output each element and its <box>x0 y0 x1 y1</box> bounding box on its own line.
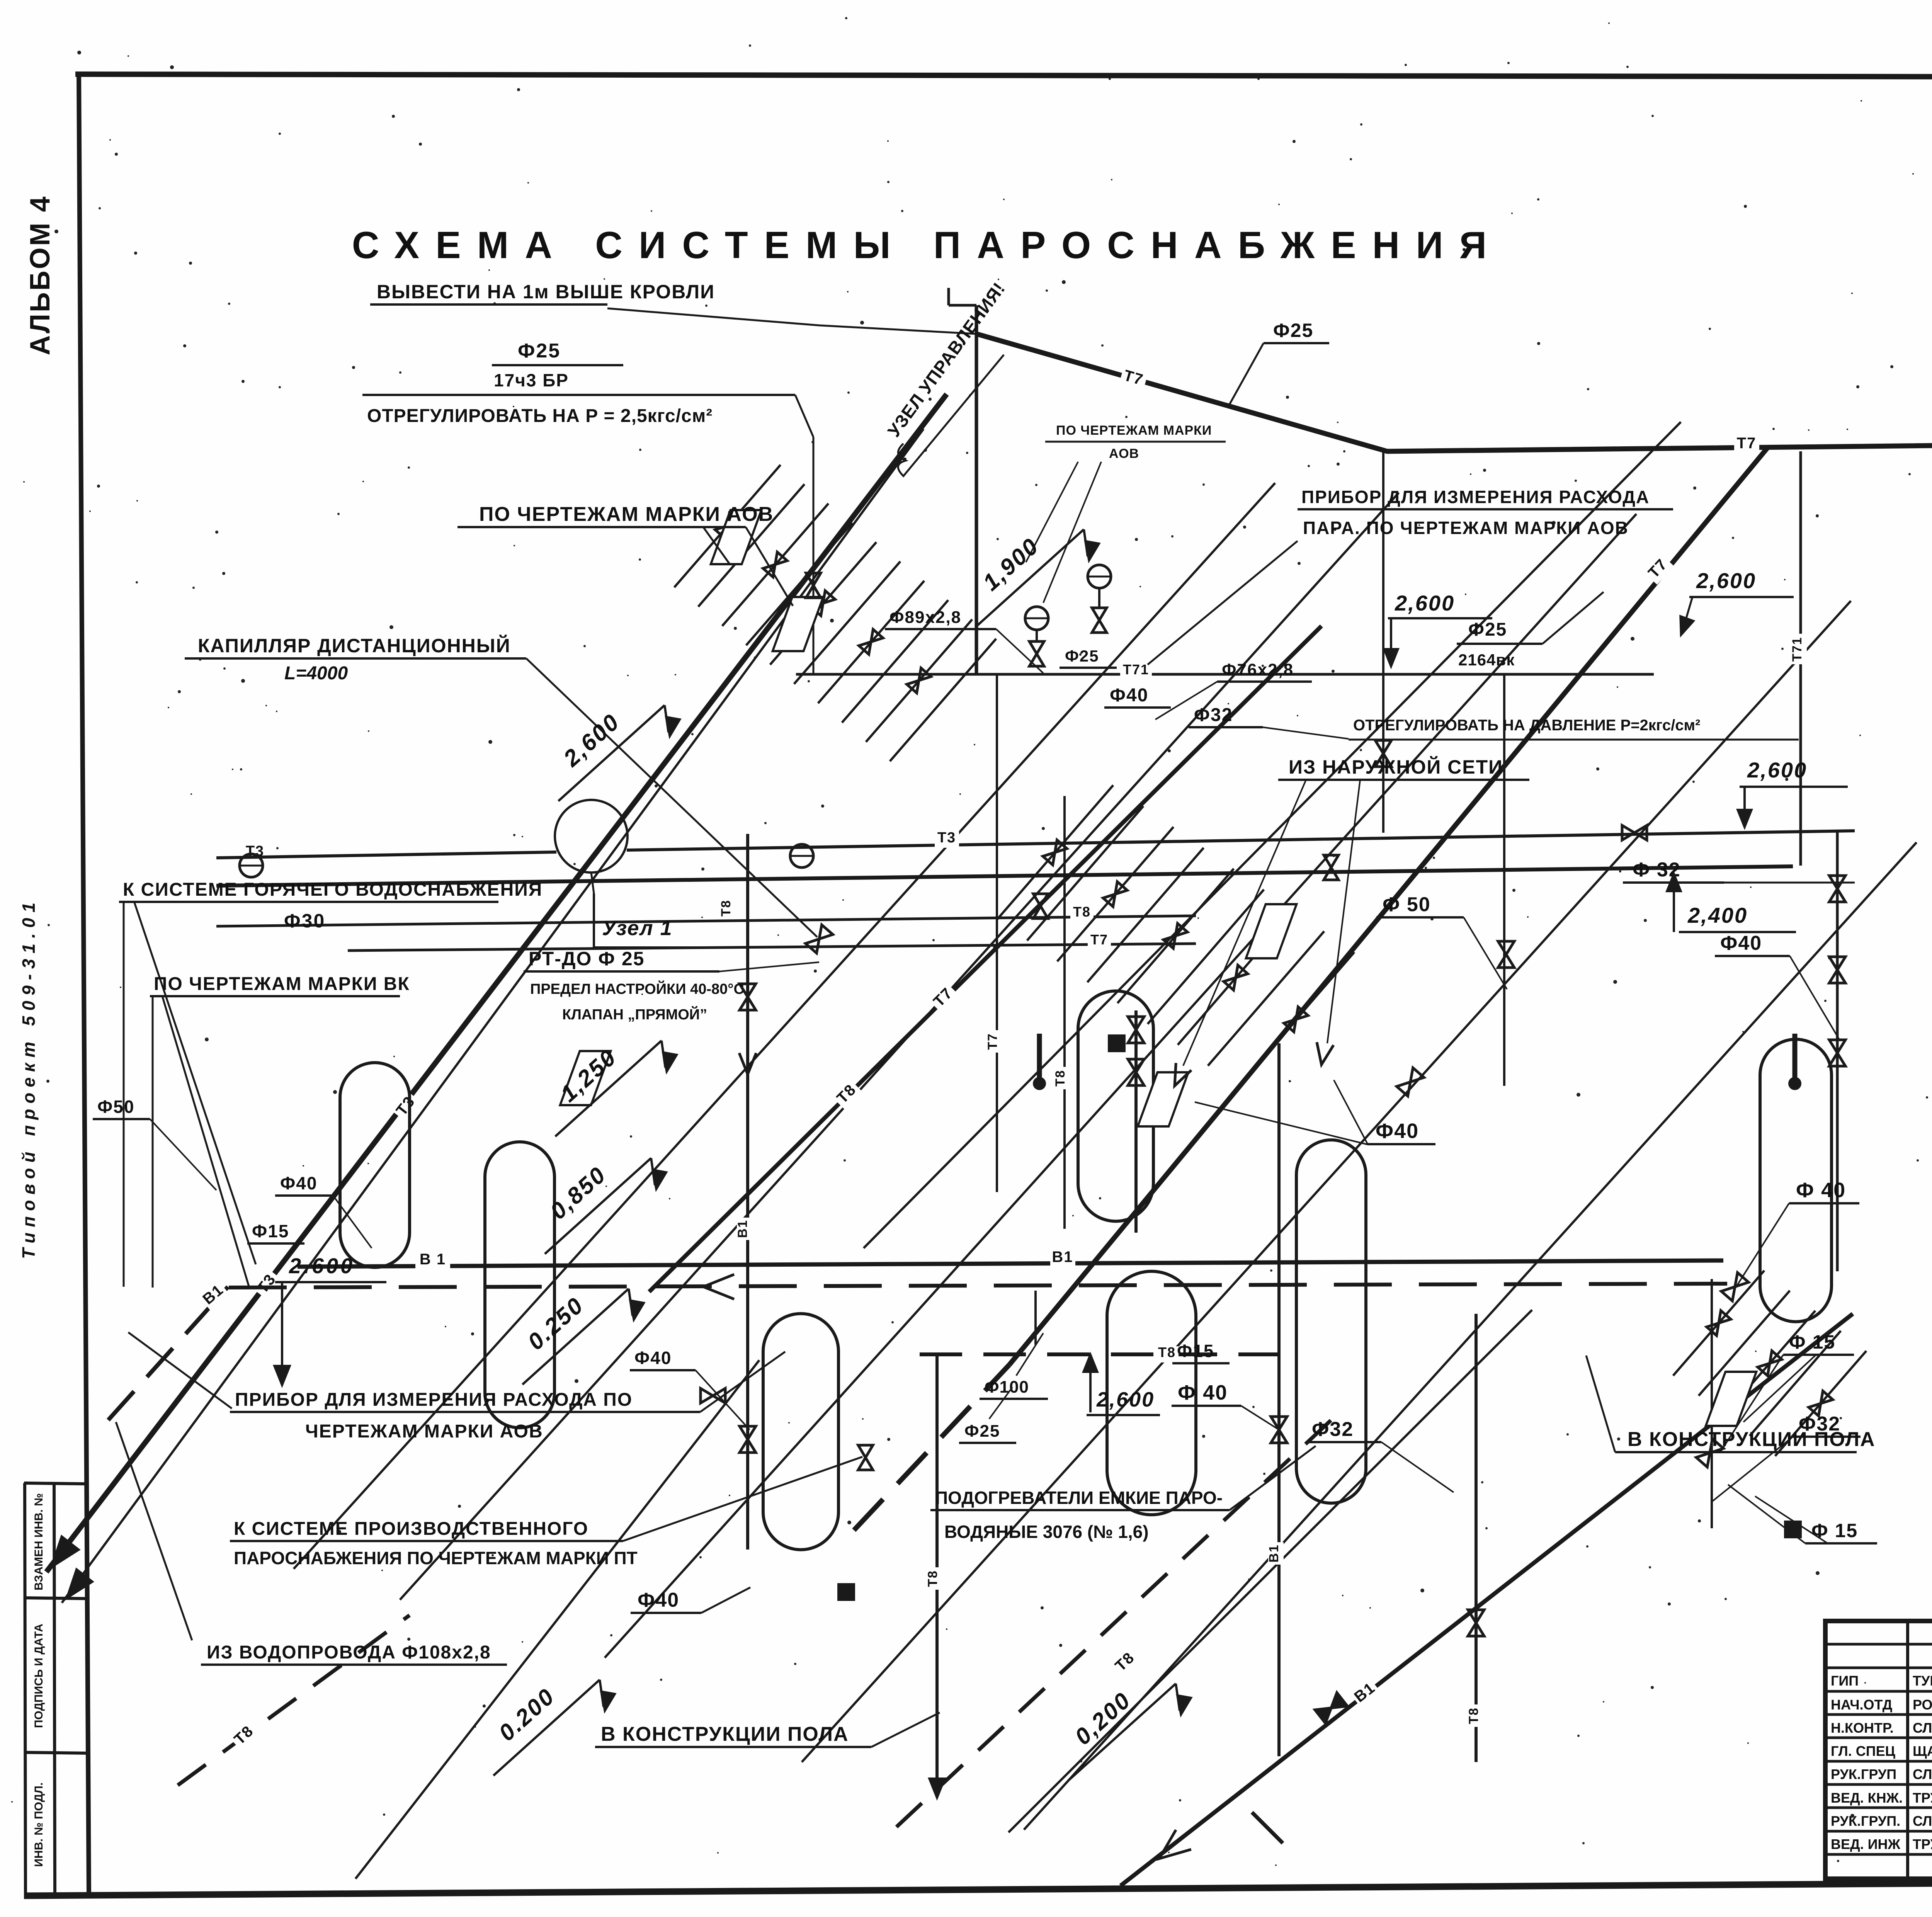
svg-text:Т8: Т8 <box>1466 1707 1481 1724</box>
svg-text:СЛОБОДЯНИК: СЛОБОДЯНИК <box>1913 1813 1932 1829</box>
svg-text:Ф32: Ф32 <box>1312 1418 1354 1441</box>
svg-text:Ф40: Ф40 <box>634 1348 672 1368</box>
svg-text:ВЕД. КНЖ.: ВЕД. КНЖ. <box>1831 1790 1903 1806</box>
svg-text:L=4000: L=4000 <box>284 663 348 684</box>
svg-text:Ф25: Ф25 <box>1468 619 1507 640</box>
svg-text:17ч3 БР: 17ч3 БР <box>494 370 569 390</box>
svg-text:РУК.ГРУП: РУК.ГРУП <box>1831 1766 1896 1782</box>
svg-text:АЛЬБОМ 4: АЛЬБОМ 4 <box>25 195 56 356</box>
svg-text:Ф40: Ф40 <box>638 1589 679 1611</box>
svg-text:Т8: Т8 <box>719 900 733 917</box>
svg-text:Т8: Т8 <box>1073 904 1091 920</box>
svg-text:ПО ЧЕРТЕЖАМ МАРКИ АОВ: ПО ЧЕРТЕЖАМ МАРКИ АОВ <box>479 503 774 526</box>
svg-text:ТУРИНСКИЙ: ТУРИНСКИЙ <box>1913 1672 1932 1689</box>
svg-text:В 1: В 1 <box>420 1251 446 1268</box>
svg-text:КЛАПАН „ПРЯМОЙ”: КЛАПАН „ПРЯМОЙ” <box>562 1005 707 1023</box>
svg-text:СЛОБОДЯНИК: СЛОБОДЯНИК <box>1913 1766 1932 1782</box>
svg-text:ПОДОГРЕВАТЕЛИ ЕМКИЕ ПАРО-: ПОДОГРЕВАТЕЛИ ЕМКИЕ ПАРО- <box>935 1488 1223 1508</box>
svg-text:КАПИЛЛЯР ДИСТАНЦИОННЫЙ: КАПИЛЛЯР ДИСТАНЦИОННЫЙ <box>198 634 511 657</box>
svg-text:В КОНСТРУКЦИИ ПОЛА: В КОНСТРУКЦИИ ПОЛА <box>601 1723 849 1745</box>
svg-text:Ф40: Ф40 <box>1720 932 1762 954</box>
svg-text:К СИСТЕМЕ ГОРЯЧЕГО ВОДОСНАБЖЕН: К СИСТЕМЕ ГОРЯЧЕГО ВОДОСНАБЖЕНИЯ <box>123 879 543 900</box>
svg-text:Ф40: Ф40 <box>1376 1119 1419 1143</box>
svg-text:Т7: Т7 <box>1737 435 1757 452</box>
svg-text:РТ-ДО Ф 25: РТ-ДО Ф 25 <box>529 948 645 970</box>
svg-text:Т8: Т8 <box>1053 1070 1068 1087</box>
svg-text:2164вк: 2164вк <box>1458 651 1515 669</box>
svg-text:ЧЕРТЕЖАМ МАРКИ АОВ: ЧЕРТЕЖАМ МАРКИ АОВ <box>305 1421 543 1442</box>
svg-text:СХЕМА СИСТЕМЫ ПАРОСНАБЖЕНИЯ: СХЕМА СИСТЕМЫ ПАРОСНАБЖЕНИЯ <box>352 224 1503 266</box>
svg-text:Типовой проект 509-31.01: Типовой проект 509-31.01 <box>19 897 39 1259</box>
svg-text:Узел 1: Узел 1 <box>602 917 673 940</box>
svg-text:ГИП: ГИП <box>1831 1673 1859 1689</box>
svg-text:Т71: Т71 <box>1123 662 1149 677</box>
svg-text:410: 410 <box>1930 700 1932 740</box>
svg-text:ПАРА. ПО ЧЕРТЕЖАМ МАРКИ АОВ: ПАРА. ПО ЧЕРТЕЖАМ МАРКИ АОВ <box>1303 518 1629 538</box>
svg-text:Ф 40: Ф 40 <box>1796 1179 1846 1202</box>
svg-text:ПО ЧЕРТЕЖАМ МАРКИ ВК: ПО ЧЕРТЕЖАМ МАРКИ ВК <box>154 974 410 994</box>
svg-text:ИНВ. № ПОДЛ.: ИНВ. № ПОДЛ. <box>32 1783 45 1867</box>
svg-text:ВОДЯНЫЕ 3076 (№ 1,6): ВОДЯНЫЕ 3076 (№ 1,6) <box>944 1522 1149 1542</box>
svg-text:Ф25: Ф25 <box>1273 320 1313 341</box>
svg-text:Ф25: Ф25 <box>518 340 561 362</box>
svg-text:Ф15: Ф15 <box>252 1221 289 1241</box>
svg-text:Ф50: Ф50 <box>97 1097 134 1117</box>
svg-text:Ф30: Ф30 <box>284 910 325 932</box>
svg-text:2,600: 2,600 <box>1395 591 1455 615</box>
svg-text:Т71: Т71 <box>1790 637 1804 662</box>
svg-text:Ф89x2,8: Ф89x2,8 <box>889 608 961 627</box>
svg-text:2,600: 2,600 <box>1096 1388 1155 1411</box>
svg-text:Ф40: Ф40 <box>280 1173 317 1193</box>
svg-text:Ф25: Ф25 <box>964 1422 1000 1441</box>
svg-text:В КОНСТРУКЦИИ ПОЛА: В КОНСТРУКЦИИ ПОЛА <box>1628 1428 1876 1451</box>
svg-text:ПО ЧЕРТЕЖАМ МАРКИ: ПО ЧЕРТЕЖАМ МАРКИ <box>1056 423 1212 438</box>
svg-text:ОТРЕГУЛИРОВАТЬ НА ДАВЛЕНИЕ Р=2: ОТРЕГУЛИРОВАТЬ НА ДАВЛЕНИЕ Р=2кгс/см² <box>1353 717 1700 734</box>
svg-text:Т3: Т3 <box>937 830 956 846</box>
svg-text:ЩАПИЛЬСКИЙ: ЩАПИЛЬСКИЙ <box>1913 1743 1932 1759</box>
svg-text:ТРУШ: ТРУШ <box>1913 1836 1932 1852</box>
svg-text:Ф40: Ф40 <box>1110 685 1148 706</box>
svg-text:ВЫВЕСТИ НА 1м ВЫШЕ КРОВЛИ: ВЫВЕСТИ НА 1м ВЫШЕ КРОВЛИ <box>377 281 715 303</box>
svg-text:ПРИБОР ДЛЯ ИЗМЕРЕНИЯ РАСХОДА: ПРИБОР ДЛЯ ИЗМЕРЕНИЯ РАСХОДА <box>1301 487 1650 507</box>
svg-text:РУК.ГРУП.: РУК.ГРУП. <box>1831 1813 1900 1829</box>
svg-text:2,600: 2,600 <box>1696 568 1756 593</box>
svg-text:РОЗЕНТАЛЬ: РОЗЕНТАЛЬ <box>1913 1697 1932 1713</box>
svg-text:2.600: 2.600 <box>289 1254 355 1278</box>
svg-text:ОТРЕГУЛИРОВАТЬ НА Р = 2,5кгс: ОТРЕГУЛИРОВАТЬ НА Р = 2,5кгс/см² <box>367 406 713 426</box>
svg-text:ИЗ ВОДОПРОВОДА Ф108x2,8: ИЗ ВОДОПРОВОДА Ф108x2,8 <box>207 1642 491 1663</box>
svg-text:Т8: Т8 <box>1158 1344 1176 1360</box>
svg-text:СЛОБОДЯНИК: СЛОБОДЯНИК <box>1913 1720 1932 1736</box>
svg-text:ПОДПИСЬ И ДАТА: ПОДПИСЬ И ДАТА <box>32 1624 45 1728</box>
svg-text:ТРУШ: ТРУШ <box>1913 1790 1932 1806</box>
svg-text:Ф15: Ф15 <box>1177 1341 1214 1361</box>
svg-text:ИЗ НАРУЖНОЙ СЕТИ: ИЗ НАРУЖНОЙ СЕТИ <box>1289 756 1503 778</box>
svg-text:ВЕД. ИНЖ: ВЕД. ИНЖ <box>1831 1836 1901 1852</box>
svg-text:НАЧ.ОТД: НАЧ.ОТД <box>1831 1697 1892 1713</box>
svg-text:Ф76x2,8: Ф76x2,8 <box>1222 660 1294 679</box>
svg-text:Т7: Т7 <box>985 1033 1000 1050</box>
svg-text:Н.КОНТР.: Н.КОНТР. <box>1831 1720 1894 1736</box>
svg-text:К СИСТЕМЕ ПРОИЗВОДСТВЕННОГО: К СИСТЕМЕ ПРОИЗВОДСТВЕННОГО <box>234 1519 588 1539</box>
svg-text:ПРЕДЕЛ НАСТРОЙКИ 40-80°С: ПРЕДЕЛ НАСТРОЙКИ 40-80°С <box>530 980 744 997</box>
svg-text:2,400: 2,400 <box>1687 903 1748 927</box>
svg-text:АОВ: АОВ <box>1109 446 1139 461</box>
svg-text:ПРИБОР ДЛЯ ИЗМЕРЕНИЯ РАСХОДА П: ПРИБОР ДЛЯ ИЗМЕРЕНИЯ РАСХОДА ПО <box>235 1390 633 1410</box>
svg-text:ПАРОСНАБЖЕНИЯ ПО ЧЕРТЕЖАМ МАРК: ПАРОСНАБЖЕНИЯ ПО ЧЕРТЕЖАМ МАРКИ ПТ <box>234 1548 638 1568</box>
svg-text:В1: В1 <box>1267 1544 1281 1562</box>
svg-text:2,600: 2,600 <box>1747 758 1807 782</box>
svg-text:ГЛ. СПЕЦ: ГЛ. СПЕЦ <box>1831 1743 1896 1759</box>
svg-text:Ф 50: Ф 50 <box>1383 893 1431 916</box>
svg-text:Ф32: Ф32 <box>1194 705 1233 725</box>
svg-text:В1: В1 <box>1052 1249 1073 1266</box>
svg-text:Т7: Т7 <box>1090 932 1108 947</box>
svg-text:Т8: Т8 <box>925 1570 940 1587</box>
svg-text:Ф 40: Ф 40 <box>1178 1381 1228 1404</box>
svg-text:ВЗАМЕН ИНВ. №: ВЗАМЕН ИНВ. № <box>32 1493 45 1590</box>
svg-text:Ф25: Ф25 <box>1065 647 1099 665</box>
svg-text:В1: В1 <box>735 1220 750 1238</box>
svg-text:Ф 15: Ф 15 <box>1789 1331 1835 1353</box>
